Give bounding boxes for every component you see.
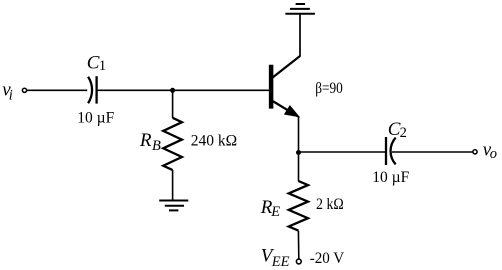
wire node A down to RB [172, 90, 174, 118]
svg-text:10 µF: 10 µF [77, 110, 114, 127]
svg-text:10 µF: 10 µF [372, 169, 409, 186]
svg-text:-20 V: -20 V [310, 250, 345, 267]
terminal vo [473, 150, 477, 154]
svg-text:o: o [490, 146, 497, 162]
svg-text:E: E [270, 204, 280, 220]
node A (base/RB junction) [170, 88, 175, 93]
svg-text:β=90: β=90 [315, 80, 343, 97]
label C1 [87, 53, 106, 75]
transistor Q1 [271, 56, 300, 117]
label vo [483, 139, 497, 162]
label C2 [388, 119, 407, 141]
label RE [260, 197, 281, 220]
node B (emitter/output junction) [296, 150, 301, 155]
resistor RB [163, 118, 182, 170]
wire emitter to node B [298, 116, 300, 153]
label RB [139, 130, 161, 154]
wire RE to VEE terminal [297, 231, 299, 259]
ground (RB branch) [159, 201, 188, 211]
svg-text:C: C [87, 53, 100, 74]
svg-text:i: i [9, 88, 13, 104]
wire input to C1 [27, 89, 87, 91]
ground (collector, inverted at top) [285, 4, 315, 14]
terminal vi [22, 88, 26, 92]
terminal VEE [296, 259, 301, 264]
wire node B to RE [298, 153, 300, 182]
label VEE [261, 246, 290, 270]
wire C1 to base [97, 89, 269, 91]
svg-text:EE: EE [271, 254, 290, 270]
svg-text:240 kΩ: 240 kΩ [191, 133, 237, 150]
wire node B to C2 [299, 151, 387, 153]
wire RB to ground [172, 170, 174, 201]
capacitor C2 [386, 137, 396, 165]
wire collector to top ground [299, 14, 301, 57]
svg-text:1: 1 [99, 58, 106, 74]
capacitor C1 [88, 76, 97, 103]
wire C2 to vo [392, 151, 473, 153]
svg-text:R: R [139, 130, 152, 151]
svg-text:2 kΩ: 2 kΩ [316, 196, 344, 213]
resistor RE [289, 181, 308, 231]
svg-text:B: B [152, 138, 161, 154]
svg-text:2: 2 [400, 125, 407, 141]
label vi [2, 80, 13, 104]
